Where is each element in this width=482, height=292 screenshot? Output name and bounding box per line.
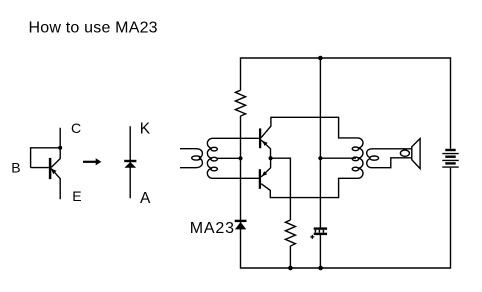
svg-text:MA23: MA23 [190,220,235,237]
svg-text:K: K [140,120,151,137]
svg-text:How to use MA23: How to use MA23 [29,20,158,37]
svg-text:A: A [140,190,151,207]
svg-text:E: E [72,188,81,204]
svg-text:B: B [11,159,20,175]
svg-text:C: C [71,120,81,136]
